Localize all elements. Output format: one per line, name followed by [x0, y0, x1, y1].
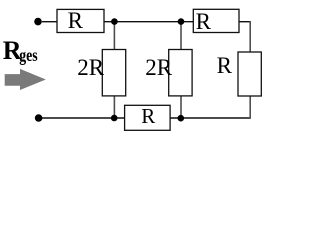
svg-text:2R: 2R — [77, 55, 105, 80]
svg-text:R: R — [196, 9, 212, 34]
svg-text:R: R — [217, 53, 233, 78]
svg-text:ges: ges — [19, 45, 37, 65]
svg-text:R: R — [141, 104, 155, 128]
svg-text:R: R — [68, 8, 84, 33]
svg-text:2R: 2R — [145, 55, 173, 80]
